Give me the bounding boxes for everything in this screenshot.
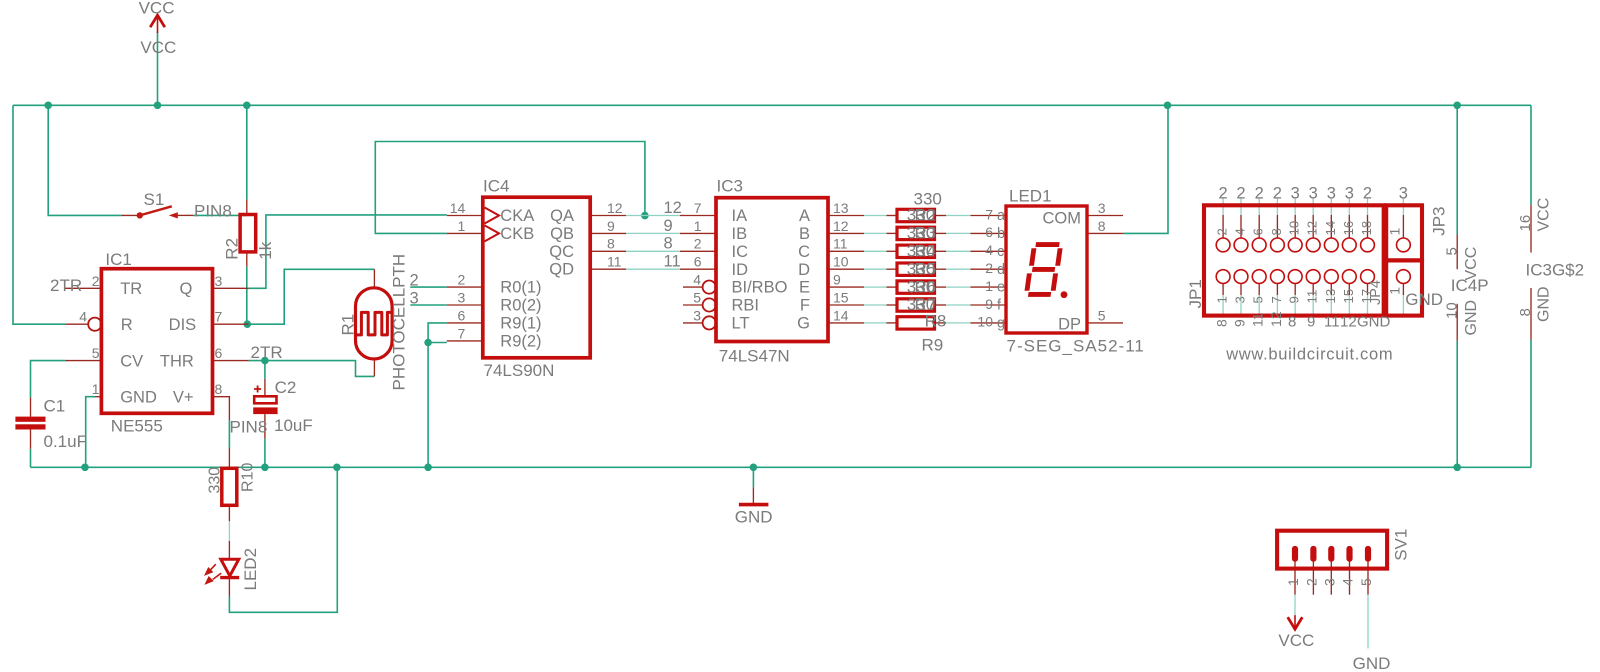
pin resistor R9 row 4 right (935, 268, 947, 270)
pin SV1 pin 2 (1312, 561, 1314, 594)
svg-text:12: 12 (1268, 311, 1284, 327)
svg-text:3: 3 (1233, 296, 1248, 303)
svg-text:5: 5 (693, 290, 701, 306)
svg-text:10: 10 (833, 254, 849, 270)
pin IC3 BI/RBO pin4 with bubble (683, 286, 702, 288)
pin LED1 DP pin5 (1087, 322, 1123, 324)
svg-text:16: 16 (1341, 221, 1356, 236)
pin C1 top (30, 397, 32, 416)
pin IC3 G pin14 (828, 322, 864, 324)
svg-text:8: 8 (1098, 218, 1106, 234)
pin JP1 top pin 10 (1294, 215, 1296, 238)
svg-text:1k: 1k (256, 241, 275, 259)
svg-text:www.buildcircuit.com: www.buildcircuit.com (1225, 346, 1393, 364)
pin JP1 bottom pin 3 (1240, 284, 1242, 296)
junction R9 GND bus (424, 464, 432, 472)
svg-text:3: 3 (1291, 185, 1300, 203)
pin resistor R9 row 2 left (887, 232, 898, 234)
svg-text:8: 8 (215, 381, 223, 397)
wire net 3 R0(2) (410, 304, 447, 306)
7-segment digit 8 (1026, 245, 1060, 295)
svg-text:2: 2 (694, 236, 702, 252)
wire JP4 pin net (1402, 295, 1404, 317)
svg-text:DP: DP (1058, 315, 1081, 333)
pin JP1 bottom pin 9 (1294, 284, 1296, 296)
svg-text:NE555: NE555 (111, 417, 163, 436)
pin LED1 segment f (971, 304, 1007, 306)
pin JP1 bottom pin 7 (1276, 284, 1278, 296)
wire JP1 bottom pin 15 net (1348, 295, 1350, 317)
pin IC4P VCC pin5 (1456, 235, 1458, 270)
svg-text:S1: S1 (144, 190, 165, 209)
svg-text:1: 1 (1215, 296, 1230, 303)
junction R9 tie (424, 339, 432, 347)
svg-text:5: 5 (1251, 296, 1266, 303)
svg-text:R8: R8 (925, 312, 947, 331)
svg-text:B: B (799, 225, 810, 243)
svg-text:5: 5 (1358, 578, 1374, 586)
svg-text:2: 2 (1215, 228, 1230, 235)
wire C2 bottom to GND bus (264, 439, 266, 468)
svg-text:IC3G$2: IC3G$2 (1526, 261, 1585, 280)
pin IC3 B pin12 (828, 232, 864, 234)
svg-text:2: 2 (1236, 185, 1245, 203)
svg-text:2: 2 (1363, 185, 1372, 203)
svg-text:7: 7 (215, 309, 223, 325)
wire C2 top branch (264, 361, 266, 379)
svg-text:b: b (997, 226, 1005, 242)
pin IC1 GND pin1 (95, 396, 101, 398)
svg-text:1: 1 (1285, 578, 1301, 586)
svg-text:QA: QA (550, 207, 574, 225)
svg-text:IA: IA (732, 207, 748, 225)
svg-text:C2: C2 (275, 378, 297, 397)
svg-text:1: 1 (694, 218, 702, 234)
pin IC4 CKA pin14 (447, 215, 483, 217)
svg-text:R3: R3 (915, 224, 937, 243)
wire JP1 top pin 4 net (1240, 199, 1242, 216)
pin LED1 segment d (971, 268, 1007, 270)
wire JP1 bottom pin 13 net (1330, 295, 1332, 317)
svg-text:2: 2 (1255, 185, 1264, 203)
pin IC1 DIS pin7 (213, 323, 249, 325)
pin JP1 bottom pin 5 (1258, 284, 1260, 296)
svg-text:JP4: JP4 (1368, 280, 1384, 305)
svg-text:CKB: CKB (500, 225, 534, 243)
pin resistor R9 row 6 right (935, 304, 947, 306)
svg-text:PHOTOCELLPTH: PHOTOCELLPTH (390, 254, 409, 391)
pin resistor R9 row 4 left (887, 268, 898, 270)
svg-text:R2: R2 (223, 238, 242, 260)
svg-text:1: 1 (92, 381, 100, 397)
capacitor C2 plus sign (254, 386, 261, 393)
svg-text:V+: V+ (173, 389, 194, 407)
svg-text:8: 8 (607, 236, 615, 252)
svg-text:GND: GND (1353, 654, 1391, 672)
svg-text:2TR: 2TR (50, 276, 82, 295)
wire net QD IC4 to IC3 (626, 268, 680, 270)
svg-text:R0(2): R0(2) (500, 297, 541, 315)
pin resistor R9 row 1 left (887, 215, 898, 217)
pin line R2 bottom (246, 252, 248, 267)
svg-text:R: R (121, 316, 133, 334)
pin resistor R9 row 5 left (887, 286, 898, 288)
svg-text:8: 8 (1288, 314, 1296, 331)
pin resistor R9 row 2 right (935, 232, 947, 234)
svg-text:10: 10 (1287, 221, 1302, 236)
svg-text:D: D (798, 261, 810, 279)
svg-text:c: c (997, 244, 1004, 260)
svg-text:7: 7 (1269, 296, 1284, 303)
svg-text:9: 9 (1232, 319, 1248, 327)
svg-text:PIN8: PIN8 (194, 201, 232, 220)
pin resistor R9 row 3 right (935, 250, 947, 252)
svg-text:IC: IC (732, 243, 749, 261)
photocell R1 meander element (357, 312, 391, 335)
wire VCC symbol stem (157, 32, 159, 105)
pin LED1 segment g (971, 322, 1007, 324)
wire JP1 bottom pin 9 net (1294, 295, 1296, 317)
svg-text:C1: C1 (44, 397, 66, 416)
svg-text:10uF: 10uF (274, 416, 313, 435)
pin IC1 CV pin5 (65, 360, 101, 362)
svg-text:6: 6 (694, 254, 702, 270)
JP1 top row pads (1216, 238, 1230, 252)
wire LED2 cathode return loop (229, 467, 337, 612)
svg-text:8: 8 (1269, 228, 1284, 235)
svg-text:BI/RBO: BI/RBO (732, 279, 788, 297)
svg-text:F: F (800, 297, 810, 315)
wire R9(2) stub (428, 342, 447, 344)
svg-text:15: 15 (1341, 289, 1356, 304)
junction C2 GND bus (261, 464, 269, 472)
junction IC1 GND bus (81, 464, 89, 472)
pin C1 bottom (30, 430, 32, 449)
svg-text:6: 6 (985, 224, 993, 240)
svg-text:11: 11 (664, 253, 681, 271)
svg-text:3: 3 (1098, 200, 1106, 216)
pin JP1 top pin 4 (1240, 215, 1242, 238)
svg-text:IB: IB (732, 225, 748, 243)
svg-text:1: 1 (1387, 287, 1403, 295)
svg-text:2TR: 2TR (251, 343, 283, 362)
7-segment decimal point (1061, 291, 1068, 298)
pin GND symbol stem (752, 487, 754, 503)
svg-text:5: 5 (1098, 307, 1106, 323)
op-amp-style box IC1 NE555 body (101, 269, 212, 414)
pin IC1 TR pin2 (65, 287, 101, 289)
connector SV1 body (1277, 531, 1387, 569)
wire CV to C1 (31, 361, 66, 398)
junction IC4P VCC bus (1453, 102, 1461, 110)
svg-text:A: A (799, 207, 810, 225)
svg-text:DIS: DIS (169, 316, 197, 334)
pin resistor R9 row 7 right (935, 322, 947, 324)
svg-text:11: 11 (1305, 290, 1320, 304)
svg-text:7: 7 (985, 206, 993, 222)
svg-text:13: 13 (833, 200, 849, 216)
wire IC4P power drop (1456, 105, 1458, 234)
svg-text:5: 5 (92, 345, 100, 361)
wire JP1 top pin 2 net (1222, 199, 1224, 216)
resistor R10 body (222, 468, 237, 505)
svg-text:8: 8 (1517, 308, 1534, 316)
svg-text:8: 8 (1214, 319, 1230, 327)
pin SV1 pin 4 (1349, 561, 1351, 594)
pin line R2 top (246, 200, 248, 216)
pin photocell R1 top (373, 269, 375, 288)
svg-text:CV: CV (120, 353, 143, 371)
svg-text:8: 8 (664, 235, 673, 253)
svg-text:G: G (797, 315, 810, 333)
pin R10 top (228, 448, 230, 469)
junction R2 DIS node (244, 320, 252, 328)
svg-text:2: 2 (1273, 185, 1282, 203)
pin JP1 top pin 16 (1348, 215, 1350, 238)
wire DIS to photocell top (249, 269, 375, 324)
svg-text:13: 13 (1323, 289, 1338, 304)
pin IC1 THR pin6 (213, 360, 249, 362)
wire resistor row 5 to 7seg (946, 286, 971, 288)
svg-text:R0(1): R0(1) (500, 279, 541, 297)
svg-text:GND: GND (1357, 314, 1391, 331)
svg-text:Q: Q (180, 280, 193, 298)
switch S1 contacts and lever (137, 212, 143, 218)
svg-text:6: 6 (458, 307, 466, 323)
svg-text:2: 2 (1219, 185, 1228, 203)
svg-text:1: 1 (985, 278, 993, 294)
svg-text:LED1: LED1 (1009, 186, 1052, 205)
svg-text:JP3: JP3 (1429, 207, 1448, 236)
svg-text:10: 10 (1444, 302, 1461, 319)
pin IC3 A pin13 (828, 215, 864, 217)
pin JP1 top pin 18 (1367, 215, 1369, 238)
junction COM VCC bus (1164, 102, 1172, 110)
SV1 pin pads (1292, 546, 1298, 562)
wire net QC IC4 to IC3 (626, 250, 680, 252)
pin SV1 pin 3 (1330, 561, 1332, 594)
svg-text:THR: THR (160, 353, 194, 371)
wire net PIN8 S1 to R2 (193, 214, 247, 216)
ground symbol bar (739, 503, 769, 507)
wire SV1 pin5 to GND (1367, 595, 1369, 649)
svg-text:IC4: IC4 (483, 177, 509, 196)
pin LED1 COM pin8 (1087, 232, 1123, 234)
pin IC3 RBI pin5 with bubble (683, 304, 702, 306)
connector JP4 body (1386, 260, 1422, 315)
pin SV1 pin 1 (1294, 561, 1296, 594)
svg-text:GND: GND (1463, 300, 1480, 336)
wire JP3 pin net (1402, 199, 1404, 216)
pin IC4 QC pin8 (590, 250, 626, 252)
wire IC3 output row 6 to resistor (864, 304, 887, 306)
pin JP1 bottom pin 15 (1348, 284, 1350, 296)
svg-text:9: 9 (1287, 296, 1302, 303)
svg-text:6: 6 (1251, 228, 1266, 235)
svg-text:3: 3 (215, 273, 223, 289)
svg-text:R10: R10 (240, 463, 257, 492)
pin LED1 COM pin3 (1087, 215, 1123, 217)
wire JP1 top pin 18 net (1367, 199, 1369, 216)
svg-text:IC1: IC1 (105, 250, 131, 269)
pin IC3 ID pin6 (680, 268, 716, 270)
svg-text:3: 3 (1321, 578, 1337, 586)
wire SV1 pin1 to VCC (1294, 595, 1296, 616)
wire IC1 GND pin to bus (86, 397, 95, 468)
wire JP1 top pin 16 net (1348, 199, 1350, 216)
wire net Q output to CKA (249, 215, 447, 288)
svg-text:1: 1 (1387, 228, 1403, 236)
pin SV1 pin 5 (1367, 561, 1369, 594)
pin IC4 CKB pin1 (447, 232, 483, 234)
wire net 2TR THR to photocell bottom (249, 361, 375, 377)
pin IC4P GND pin10 (1456, 304, 1458, 341)
pin C2 top (264, 379, 266, 397)
LED1 7-segment display body (1006, 206, 1087, 333)
junction QA feedback (641, 212, 649, 220)
svg-text:9: 9 (833, 272, 841, 288)
wire R9(1) to R9(2) tie (428, 323, 447, 343)
wire IC3G$2 GND drop (1530, 340, 1532, 468)
junction IC4P GND bus (1453, 464, 1461, 472)
wire IC3 output row 4 to resistor (864, 268, 887, 270)
svg-text:R9(1): R9(1) (500, 314, 541, 332)
wire VCC top bus (13, 104, 1531, 106)
svg-text:VCC: VCC (1536, 198, 1553, 232)
pin IC3 IB pin1 (680, 232, 716, 234)
svg-text:7: 7 (458, 325, 466, 341)
svg-text:12: 12 (607, 200, 623, 216)
svg-text:0.1uF: 0.1uF (44, 432, 87, 451)
pin C2 bottom (264, 414, 266, 439)
connector JP3 body (1386, 205, 1422, 260)
VCC power arrow bottom SV1 (1288, 617, 1303, 629)
junction GND symbol bus (750, 464, 758, 472)
junction 2TR C2 node (261, 357, 269, 365)
wire resistor row 6 to 7seg (946, 304, 971, 306)
pin LED1 segment b (971, 232, 1007, 234)
svg-text:GND: GND (120, 389, 157, 407)
clock mark CKB (485, 225, 499, 241)
pin JP3 pin1 (1402, 215, 1404, 238)
wire JP1 bottom pin 3 net (1240, 295, 1242, 317)
pin JP1 top pin 6 (1258, 215, 1260, 238)
wire R2 bottom to DIS (246, 267, 248, 325)
svg-text:9: 9 (1307, 314, 1315, 331)
svg-text:E: E (799, 279, 810, 297)
pin LED1 segment c (971, 250, 1007, 252)
pin LED1 segment a (971, 215, 1007, 217)
svg-text:R9: R9 (922, 336, 944, 355)
pin IC1 Q pin3 (213, 287, 249, 289)
capacitor C2 polarized plates (254, 396, 276, 403)
wire R9 node to GND bus (427, 343, 429, 468)
wire JP1 bottom pin 17 net (1367, 295, 1369, 317)
svg-text:R5: R5 (915, 259, 937, 278)
wire resistor row 7 to 7seg (946, 322, 971, 324)
svg-text:74LS90N: 74LS90N (484, 361, 555, 380)
wire IC3G$2 VCC drop (1530, 105, 1532, 205)
svg-text:R4: R4 (915, 242, 937, 261)
wire net QA IC4 to IC3 (626, 215, 680, 217)
svg-text:GND: GND (1405, 290, 1443, 309)
svg-text:11: 11 (1324, 314, 1340, 331)
pin LED2 anode lead (228, 541, 230, 560)
svg-text:COM: COM (1043, 209, 1082, 227)
pin resistor R9 row 5 right (935, 286, 947, 288)
svg-text:7-SEG_SA52-11: 7-SEG_SA52-11 (1007, 337, 1145, 356)
JP1 bottom row pads (1216, 270, 1230, 284)
svg-text:QD: QD (549, 261, 574, 279)
IC4 74LS90N body (483, 197, 590, 358)
wire JP1 bottom pin 1 net (1222, 295, 1224, 317)
svg-text:11: 11 (1250, 312, 1266, 327)
svg-text:9: 9 (607, 218, 615, 234)
svg-text:3: 3 (458, 290, 466, 306)
svg-text:a: a (997, 208, 1006, 224)
pin IC3 F pin15 (828, 304, 864, 306)
svg-text:3: 3 (1309, 185, 1318, 203)
wire net 2 R0(1) (410, 286, 447, 288)
svg-text:QB: QB (550, 225, 574, 243)
svg-text:SV1: SV1 (1392, 529, 1411, 561)
LED2 emission arrows (206, 564, 222, 583)
wire V+ down to R10 (228, 420, 230, 448)
pin JP1 bottom pin 13 (1330, 284, 1332, 296)
wire C1 bottom to GND bus (30, 449, 32, 467)
wire IC4P GND drop (1456, 341, 1458, 468)
wire JP1 top pin 8 net (1276, 199, 1278, 216)
wire resistor row 3 to 7seg (946, 250, 971, 252)
pin IC4 QA pin12 (590, 215, 626, 217)
svg-text:d: d (997, 262, 1005, 278)
pin IC3 IC pin2 (680, 250, 716, 252)
wire IC3 output row 3 to resistor (864, 250, 887, 252)
wire R10 to LED2 anode (228, 521, 230, 541)
photocell R1 body (356, 288, 393, 359)
wire IC3 output row 5 to resistor (864, 286, 887, 288)
junction R2 drop bus (243, 102, 251, 110)
JP3 pad (1397, 238, 1411, 252)
svg-text:R1: R1 (339, 314, 358, 336)
pin line S1 left lead (122, 214, 139, 216)
junction LED return GND bus (333, 464, 341, 472)
svg-text:R2: R2 (915, 206, 937, 225)
wire IC3 output row 7 to resistor (864, 322, 887, 324)
svg-text:GND: GND (735, 507, 773, 526)
svg-text:3: 3 (1399, 185, 1408, 203)
wire S1 drop from VCC bus (48, 105, 121, 215)
pin IC4 QD pin11 (590, 268, 626, 270)
svg-text:LT: LT (732, 315, 750, 333)
VCC power arrow top (150, 15, 165, 27)
svg-text:CKA: CKA (500, 207, 534, 225)
pin JP1 top pin 8 (1276, 215, 1278, 238)
svg-text:PIN8: PIN8 (230, 418, 268, 437)
svg-text:2: 2 (1303, 578, 1319, 586)
wire JP1 bottom pin 11 net (1312, 295, 1314, 317)
pin IC3 IA pin7 (680, 215, 716, 217)
wire GND symbol stub (752, 467, 754, 487)
pin LED1 segment e (971, 286, 1007, 288)
svg-text:9: 9 (985, 296, 993, 312)
clock mark CKA (485, 208, 499, 224)
svg-text:JP1: JP1 (1186, 279, 1205, 308)
svg-text:330: 330 (207, 467, 224, 494)
svg-text:TR: TR (120, 280, 142, 298)
pin photocell R1 bottom (373, 361, 375, 377)
svg-text:3: 3 (1345, 185, 1354, 203)
